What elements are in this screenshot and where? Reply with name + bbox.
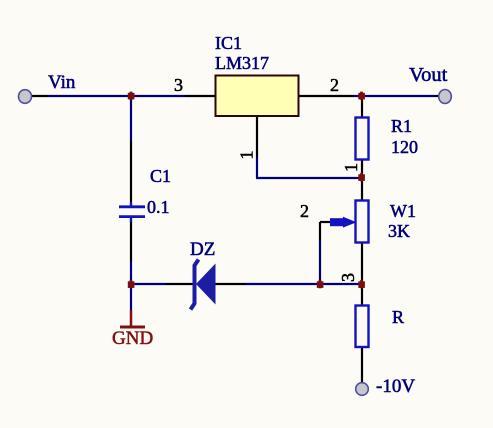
svg-text:Vout: Vout [409,64,448,86]
svg-text:1: 1 [237,151,257,160]
svg-text:LM317: LM317 [215,53,269,73]
wire R top pin (black) [361,284,363,306]
wire Vin stub (black pin) [31,95,48,97]
svg-text:IC1: IC1 [215,33,242,53]
wire IC1 pin1 vertical (black) [256,116,258,157]
wire C1 to junction F (navy) [130,261,132,284]
svg-text:-10V: -10V [376,376,415,397]
wire wiper vertical lower (navy) [319,240,321,284]
port Vout terminal [439,90,452,104]
svg-text:GND: GND [112,328,153,349]
resistor R1 [356,118,369,160]
wire C1 top pin (black) [130,141,132,202]
wire wiper horizontal (black) [320,221,331,223]
capacitor C1 [119,202,145,222]
port -10V terminal [356,383,369,396]
port Vin terminal [19,90,32,104]
svg-text:R: R [392,307,404,327]
svg-text:2: 2 [330,75,339,95]
ground GND symbol [112,310,153,349]
junction C (adj node) [358,173,365,181]
junction A (Vin node) [128,92,135,100]
svg-text:1: 1 [341,163,361,172]
wire junction B to Vout (navy) [354,95,434,97]
wire DZ right pin (black) [214,283,246,285]
diode DZ (zener) [191,260,216,310]
wire DZ to junction D (navy) [246,283,362,285]
wire junction F to DZ (navy) [131,283,166,285]
svg-text:Vin: Vin [48,72,76,93]
svg-text:2: 2 [300,201,309,221]
wire DZ left pin (black) [166,283,194,285]
potentiometer W1 wiper arrow [330,217,357,228]
wire C1 bottom pin (black) [130,221,132,261]
svg-text:C1: C1 [150,166,171,186]
wire Vin to junction A (navy) [48,95,185,97]
wire IC1 pin2 (black) [298,95,354,97]
wire pin1 vertical lower (navy) [256,157,258,178]
wire GND stub navy [130,284,132,310]
wire R1 top pin (black) [361,96,363,117]
wire W1 bottom pin (black) [361,243,363,285]
junction E (wiper node) [317,280,324,288]
svg-text:3: 3 [174,75,183,95]
svg-text:3: 3 [338,273,358,282]
junction B (Vout node) [358,92,365,100]
wire pin1 horizontal to junction C (navy) [256,177,362,179]
wire IC1 pin3 (black) [185,95,216,97]
op-amp U1: IC1 LM317 body [216,76,299,117]
resistor R [356,306,369,348]
wire W1 top pin (black) [361,178,363,201]
svg-text:0.1: 0.1 [147,197,170,217]
svg-text:DZ: DZ [190,239,215,260]
wire junction A down (navy) [130,96,132,141]
wire R1 bottom pin (black) [361,160,363,178]
wire Vout stub (black) [434,95,440,97]
junction D (W1 bottom node) [358,280,365,288]
svg-text:R1: R1 [391,116,412,136]
svg-text:120: 120 [391,137,418,157]
junction F (ground rail node) [128,280,135,288]
svg-text:3K: 3K [388,221,410,241]
svg-text:W1: W1 [390,201,416,221]
wire R bottom pin (black) [361,347,363,383]
wire wiper vertical upper (black) [319,222,321,240]
potentiometer W1 body [356,201,369,243]
